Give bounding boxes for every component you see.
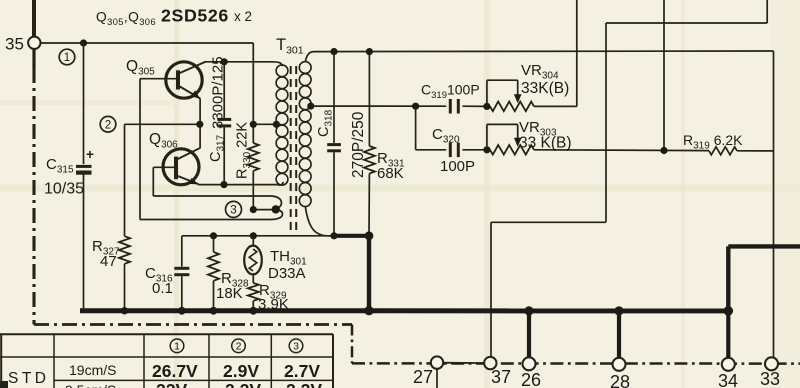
wire secondary top rail: [314, 50, 774, 53]
svg-text:x 2: x 2: [234, 9, 252, 24]
svg-text:+: +: [86, 147, 94, 162]
junction C319/C320 split: [412, 103, 419, 110]
svg-text:34: 34: [718, 371, 738, 388]
wire right edge down to terminal 33: [773, 51, 775, 358]
ground bus thick: [80, 308, 728, 313]
svg-text:33 K(B): 33 K(B): [519, 135, 572, 152]
transistor Q305: [166, 62, 202, 98]
node 3 circled: [226, 201, 242, 217]
svg-text:D33A: D33A: [268, 265, 306, 282]
svg-text:1: 1: [64, 52, 70, 64]
capacitor C319 100P: [449, 99, 452, 114]
junction collector/C317: [221, 58, 228, 65]
terminal 28: [613, 358, 626, 371]
wire B+ down to transformer tap feed: [252, 43, 254, 124]
node 2 circled: [100, 116, 116, 132]
svg-text:2SD526: 2SD526: [161, 6, 229, 26]
wire VR304 to top edge: [576, 0, 578, 106]
svg-text:18K: 18K: [216, 285, 243, 302]
feedback winding centre tap: [272, 205, 280, 213]
wire Q306 emitter to primary bottom: [198, 184, 277, 186]
svg-text:2.7V: 2.7V: [284, 361, 320, 381]
junction emitter/C317 bottom: [220, 181, 227, 188]
chain boundary line left: [32, 49, 35, 68]
svg-text:26: 26: [521, 370, 541, 388]
terminal 37: [484, 357, 496, 369]
junction R331 top: [366, 48, 373, 55]
resistor R331 68K: [368, 52, 370, 146]
svg-text:22V: 22V: [156, 380, 187, 388]
wire x606 down to wiper feed: [605, 23, 607, 222]
bus junction 28: [614, 306, 623, 315]
wire top edge to R319 rail: [663, 0, 665, 151]
thick drop terminal 26: [527, 311, 531, 359]
wire 27-37 link: [437, 362, 490, 364]
wire tap to primary: [253, 123, 276, 125]
capacitor C316 0.1: [174, 267, 189, 270]
wire down to terminal 37: [490, 222, 492, 357]
junction C316 corner: [181, 236, 183, 267]
junction TH301 top: [250, 232, 257, 239]
svg-text:100P: 100P: [440, 158, 475, 175]
terminal 34: [722, 358, 735, 371]
svg-text:3: 3: [230, 203, 237, 217]
svg-text:9.5cm/S: 9.5cm/S: [65, 382, 116, 388]
T301 secondary winding: [299, 52, 334, 236]
junction B+ tap: [250, 121, 257, 128]
svg-text:2: 2: [105, 119, 111, 131]
svg-text:10/35: 10/35: [44, 181, 84, 198]
bus junction C316: [178, 307, 186, 315]
wire Q306 base to feedback winding: [152, 167, 154, 196]
wire Q305 collector to transformer primary: [205, 61, 273, 63]
resistor R319 6.2K: [709, 147, 737, 155]
terminal 35: [32, 0, 36, 37]
svg-text:33K(B): 33K(B): [521, 80, 569, 97]
capacitor C315 10/35: [83, 43, 85, 164]
table header node 3: [289, 339, 303, 353]
wire common rail y236: [182, 235, 334, 237]
wire node2 to Q305 emitter junction: [125, 123, 201, 125]
junction Q305e/Q306c: [196, 121, 203, 128]
wire Q305 emitter to Q306 collector: [199, 99, 201, 149]
svg-text:3: 3: [293, 341, 299, 353]
svg-text:2.2V: 2.2V: [286, 380, 322, 388]
thick drop terminal 28: [617, 311, 621, 359]
junction C318 top: [330, 48, 337, 55]
wire secondary tap to C319: [311, 105, 446, 107]
junction node 3: [250, 206, 257, 213]
resistor R328 18K: [213, 236, 215, 252]
T301 primary winding: [272, 62, 288, 185]
resistor R327 47: [124, 124, 126, 236]
resistor R329 3.9K: [252, 274, 254, 283]
svg-text:28: 28: [610, 372, 630, 388]
transistor Q306: [163, 149, 199, 185]
wire down to C320: [415, 106, 417, 150]
T301 feedback winding: [253, 196, 281, 210]
wire B+ from terminal 35 to x252: [41, 42, 254, 44]
junction R328: [210, 232, 217, 239]
svg-text:2: 2: [236, 341, 242, 353]
potentiometer VR304 33K(B): [483, 103, 490, 110]
junction node 1: [80, 39, 87, 46]
T301 core: [290, 66, 292, 230]
thick rail right top: [726, 246, 730, 311]
svg-text:2.2V: 2.2V: [225, 380, 261, 388]
T301 secondary tap junction: [307, 103, 314, 110]
svg-text:1: 1: [174, 341, 180, 353]
table header node 2: [232, 339, 246, 353]
svg-text:STD: STD: [8, 370, 50, 387]
bus junction R328: [210, 307, 218, 315]
terminal 27: [431, 356, 443, 368]
svg-text:0.1: 0.1: [152, 280, 173, 297]
svg-text:R330 22K: R330 22K: [235, 122, 254, 179]
thick drop terminal 34: [726, 311, 730, 359]
svg-text:37: 37: [491, 367, 511, 387]
capacitor C320 100P: [449, 143, 452, 158]
bus junction R329: [249, 307, 257, 315]
bus junction 26: [524, 306, 533, 315]
chain boundary line bottom: [34, 323, 352, 326]
svg-text:27: 27: [413, 367, 433, 387]
svg-text:26.7V: 26.7V: [152, 361, 198, 381]
svg-text:19cm/S: 19cm/S: [69, 362, 116, 378]
svg-text:3300P/125: 3300P/125: [210, 56, 227, 129]
bus junction 34: [724, 306, 734, 316]
svg-text:35: 35: [5, 35, 24, 54]
node 1 circled: [59, 49, 75, 65]
voltage table: [0, 333, 333, 335]
capacitor C317 3300P/125: [223, 62, 225, 118]
wire terminal 27 stub: [436, 368, 438, 388]
capacitor C318 270P/250: [333, 52, 335, 143]
wire Q305 base to feedback winding: [139, 79, 141, 220]
junction C318 bottom: [330, 232, 337, 239]
thick wire rail to bus: [334, 234, 369, 238]
bus junction R327: [121, 307, 128, 314]
table header node 1: [170, 339, 184, 353]
wire top right hook: [766, 0, 768, 23]
svg-text:33: 33: [760, 369, 780, 388]
terminal 33: [765, 357, 778, 370]
svg-text:47: 47: [100, 253, 117, 270]
terminal 26: [523, 357, 536, 370]
thermistor TH301 D33A: [252, 236, 254, 246]
svg-text:68K: 68K: [377, 165, 404, 182]
potentiometer VR303 33K(B): [483, 146, 490, 153]
svg-text:2.9V: 2.9V: [223, 361, 259, 381]
resistor R330 22K: [252, 124, 254, 143]
